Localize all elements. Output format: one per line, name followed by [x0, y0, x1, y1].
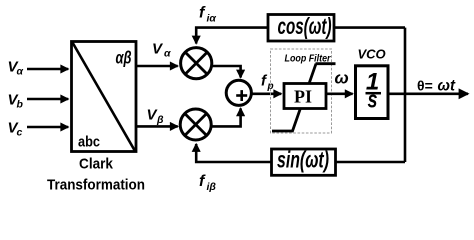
svg-text:Transformation: Transformation	[47, 177, 145, 194]
svg-text:iβ: iβ	[207, 181, 217, 193]
multiplier M2 (Vbeta x fibeta)	[180, 109, 211, 140]
wire M1 output to summer top	[212, 66, 241, 78]
wire Valpha arrow to multiplier M1	[137, 65, 178, 68]
input Vc label	[8, 120, 23, 139]
svg-text:ωt: ωt	[438, 78, 456, 95]
summer S1	[226, 80, 251, 105]
wire PI output to VCO integrator	[326, 93, 353, 96]
svg-text:b: b	[17, 99, 24, 111]
svg-text:V: V	[152, 41, 164, 58]
svg-text:α: α	[164, 48, 171, 60]
PI controller U2	[284, 84, 326, 109]
wire M2 output to summer bottom	[211, 108, 240, 126]
svg-text:Clark: Clark	[79, 156, 114, 173]
wire sin box right to branch	[336, 161, 406, 164]
svg-text:f: f	[199, 173, 206, 190]
wire cos box right to branch	[334, 26, 405, 29]
multiplier M1 (Valpha x fia)	[181, 48, 212, 79]
loop filter container box	[271, 49, 332, 133]
label Clark Transformation	[47, 156, 145, 194]
svg-text:αβ: αβ	[116, 48, 132, 68]
svg-text:s: s	[368, 87, 378, 114]
wire input Va arrow	[27, 68, 68, 71]
wire input Vc arrow	[27, 126, 68, 129]
label theta = omega t	[417, 78, 456, 95]
svg-text:abc: abc	[78, 134, 100, 151]
wire summer output to PI	[252, 93, 282, 96]
node Valpha label	[152, 41, 171, 60]
svg-text:c: c	[17, 127, 23, 139]
block sin(wt)	[272, 146, 336, 175]
node Vbeta label	[147, 107, 165, 127]
svg-text:θ=: θ=	[417, 78, 433, 94]
svg-text:iα: iα	[207, 13, 217, 25]
wire Vbeta arrow to multiplier M2	[137, 125, 178, 128]
svg-text:α: α	[17, 66, 24, 78]
wire feedback vertical branch	[404, 28, 407, 162]
block U1 Clark transformation abc to alpha-beta	[72, 42, 137, 152]
input Vb label	[8, 92, 24, 111]
svg-text:β: β	[156, 114, 164, 126]
label fia	[199, 5, 216, 25]
wire feedback cos output to M1 top	[196, 28, 268, 44]
svg-text:cos(ωt): cos(ωt)	[278, 13, 332, 39]
wire input Vb arrow	[27, 98, 68, 101]
svg-text:f: f	[199, 5, 206, 22]
step curve underline of loop filter	[316, 62, 336, 65]
label fibeta	[199, 173, 216, 193]
svg-text:VCO: VCO	[358, 47, 386, 62]
svg-text:sin(ωt): sin(ωt)	[277, 146, 329, 172]
svg-text:ω: ω	[335, 69, 349, 88]
block cos(wt)	[268, 13, 334, 41]
svg-text:PI: PI	[294, 87, 312, 107]
integrator U3 1/s	[356, 66, 389, 119]
wire feedback sin output to M2 bottom	[196, 144, 271, 162]
label fp	[261, 73, 274, 93]
step curve ramp	[272, 64, 316, 131]
wire theta output	[388, 93, 468, 96]
input Va label	[8, 59, 24, 78]
